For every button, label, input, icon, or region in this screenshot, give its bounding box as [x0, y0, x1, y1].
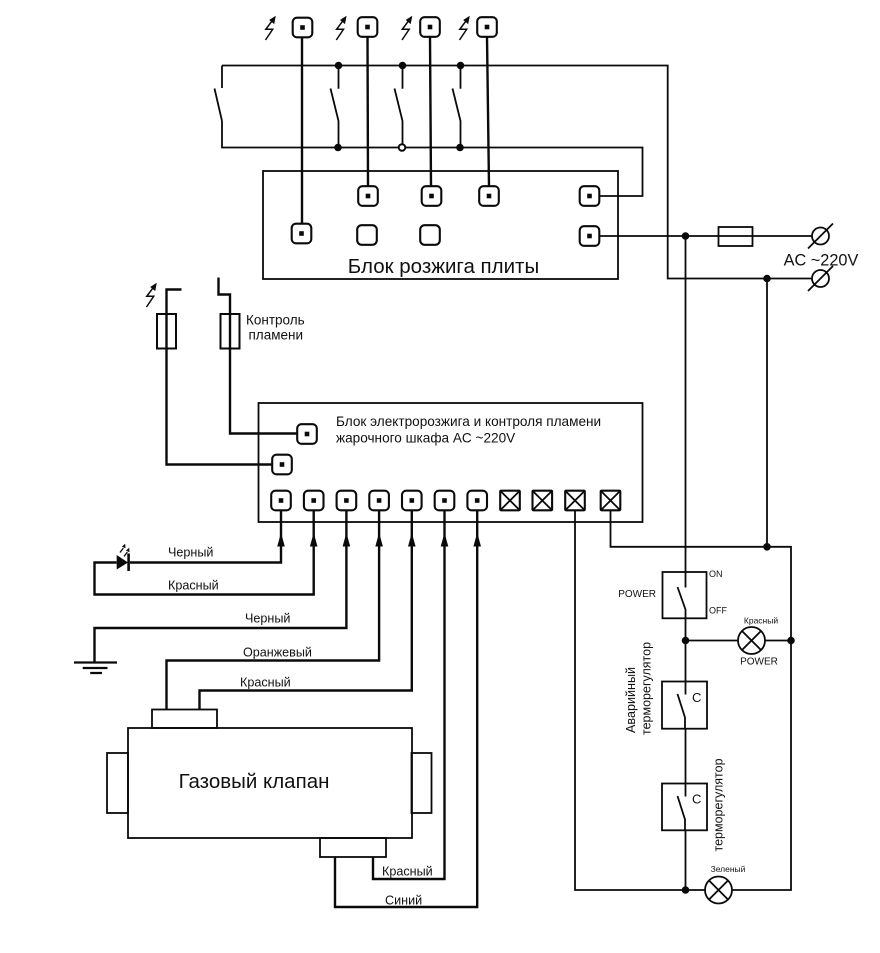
- svg-text:Зеленый: Зеленый: [711, 864, 746, 874]
- switch S4: [453, 66, 461, 148]
- spark electrode E3: [420, 17, 440, 37]
- terminal box2 X3: [565, 491, 585, 511]
- node S3 bottom (open): [399, 144, 406, 151]
- terminal box1 empty 2: [420, 225, 440, 245]
- switch S2: [331, 66, 339, 148]
- node S2 bottom: [334, 144, 342, 152]
- AC terminal N: [808, 266, 833, 291]
- fuse F1: [719, 227, 753, 246]
- wire thermostat to bottom node: [685, 830, 687, 890]
- terminal box2 X2: [533, 491, 553, 511]
- gas valve body: [128, 728, 412, 838]
- terminal box1 empty 1: [357, 225, 377, 245]
- svg-text:пламени: пламени: [249, 328, 303, 343]
- node lamp row left: [682, 637, 690, 645]
- gas valve left block: [107, 753, 128, 813]
- wire middle rail to lamp node: [685, 618, 687, 681]
- svg-text:Контроль: Контроль: [246, 313, 305, 328]
- switch S3: [395, 66, 403, 148]
- node S2 top: [335, 62, 343, 70]
- oven spark electrode: [147, 283, 157, 307]
- svg-text:Черный: Черный: [168, 546, 213, 560]
- terminal box2 upper A: [297, 424, 317, 444]
- wire AC N drop: [766, 279, 768, 547]
- terminal box1 top 2: [422, 186, 442, 206]
- svg-text:POWER: POWER: [740, 657, 778, 668]
- terminal box1 top right: [580, 186, 600, 206]
- svg-text:Красный: Красный: [168, 579, 219, 593]
- wire 4 orange to valve: [167, 510, 380, 710]
- arrow wire3: [343, 533, 351, 547]
- terminal box1 top 1: [358, 186, 378, 206]
- svg-text:Черный: Черный: [245, 612, 290, 626]
- node right-rail top junction: [763, 543, 771, 551]
- svg-text:Блок электророзжига и контроля: Блок электророзжига и контроля пламени: [336, 414, 601, 429]
- svg-text:Синий: Синий: [385, 894, 422, 908]
- red POWER lamp: [738, 627, 765, 654]
- ignition box (Блок розжига плиты): [263, 171, 618, 279]
- AC terminal L: [808, 224, 833, 249]
- spark gap bolt 1: [266, 16, 276, 40]
- svg-text:терморегулятор: терморегулятор: [640, 642, 654, 735]
- node S4 bottom: [456, 144, 464, 152]
- wire electrode E2 to ignition box: [366, 37, 369, 187]
- svg-text:Красный: Красный: [744, 616, 778, 626]
- arrow wire2: [310, 533, 318, 547]
- wire bottom bus: [222, 121, 643, 196]
- spark gap bolt 4: [460, 16, 470, 40]
- arrow wire6: [441, 533, 449, 547]
- wire X4 to right rail: [611, 511, 792, 891]
- svg-text:жарочного шкафа AC ~220V: жарочного шкафа AC ~220V: [336, 431, 515, 446]
- POWER switch box: [663, 572, 707, 618]
- terminal box2 bottom 6: [435, 491, 455, 511]
- svg-text:C: C: [692, 690, 701, 705]
- emergency thermostat box: [662, 682, 707, 729]
- node S4 top: [457, 62, 465, 70]
- node S3 top: [399, 62, 407, 70]
- gas valve top block: [152, 710, 217, 729]
- gas valve bottom block: [320, 838, 386, 857]
- terminal box1 bottom left: [292, 224, 312, 244]
- svg-text:терморегулятор: терморегулятор: [712, 758, 726, 851]
- svg-text:Блок розжига плиты: Блок розжига плиты: [348, 255, 539, 278]
- wire top bus: [222, 66, 812, 279]
- svg-text:POWER: POWER: [618, 589, 656, 600]
- terminal box2 bottom 7: [467, 491, 487, 511]
- spark electrode E1: [293, 18, 313, 38]
- wire electrode E1 to ignition box: [301, 37, 303, 224]
- wire electrode E4 to ignition box: [487, 37, 489, 187]
- gas valve right block: [412, 753, 432, 813]
- terminal box2 bottom 4: [369, 491, 389, 511]
- wire lamp row: [686, 640, 739, 642]
- node lamp row right: [787, 637, 795, 645]
- svg-text:Красный: Красный: [240, 676, 291, 690]
- oven ignition box (Блок электророзжига): [259, 403, 643, 522]
- svg-text:Красный: Красный: [382, 865, 433, 879]
- LED D1: [117, 555, 128, 570]
- node bottom junction: [682, 886, 690, 894]
- terminal box2 bottom 3: [337, 491, 357, 511]
- wire 1 black with LED: [95, 510, 314, 595]
- spark gap bolt 2: [336, 16, 346, 40]
- svg-text:Газовый клапан: Газовый клапан: [179, 770, 330, 793]
- ground: [74, 663, 117, 674]
- switch S1: [215, 66, 223, 122]
- svg-text:ON: ON: [709, 569, 723, 579]
- terminal box2 bottom 2: [304, 491, 324, 511]
- terminal box2 bottom 5: [402, 491, 422, 511]
- arrow wire7: [473, 533, 481, 547]
- wire electrode E3 to ignition box: [430, 37, 431, 187]
- arrow wire5: [408, 533, 416, 547]
- flame sensor electrode (Контроль пламени): [219, 278, 298, 434]
- wire 5 red to valve: [200, 510, 412, 710]
- terminal box2 X4: [601, 491, 621, 511]
- spark electrode E4: [477, 17, 497, 37]
- wire between thermostats: [685, 729, 687, 784]
- wire 7 blue from valve bottom: [335, 510, 477, 907]
- svg-text:Аварийный: Аварийный: [624, 667, 638, 733]
- svg-text:C: C: [692, 792, 701, 807]
- thermostat box: [662, 784, 707, 831]
- wire fuse line to AC: [600, 235, 813, 237]
- svg-text:Оранжевый: Оранжевый: [243, 646, 312, 660]
- svg-text:AC ~220V: AC ~220V: [784, 252, 859, 270]
- wire 6 red from valve bottom: [373, 510, 445, 879]
- green lamp: [705, 877, 732, 904]
- spark electrode E2: [358, 17, 378, 37]
- node AC lower junction: [763, 275, 771, 283]
- wire middle rail upper: [685, 236, 687, 572]
- wire X3 left rail: [575, 511, 705, 891]
- arrow wire1: [277, 533, 285, 547]
- wire 3 black to ground: [95, 510, 347, 663]
- terminal box2 bottom 1: [271, 491, 291, 511]
- terminal box1 bottom right: [580, 226, 600, 246]
- terminal box1 top 3: [479, 186, 499, 206]
- node fuse junction: [682, 232, 690, 240]
- svg-text:OFF: OFF: [709, 606, 727, 616]
- spark gap bolt 3: [402, 16, 412, 40]
- arrow wire4: [375, 533, 383, 547]
- terminal box2 upper B: [272, 455, 292, 475]
- terminal box2 X1: [500, 491, 520, 511]
